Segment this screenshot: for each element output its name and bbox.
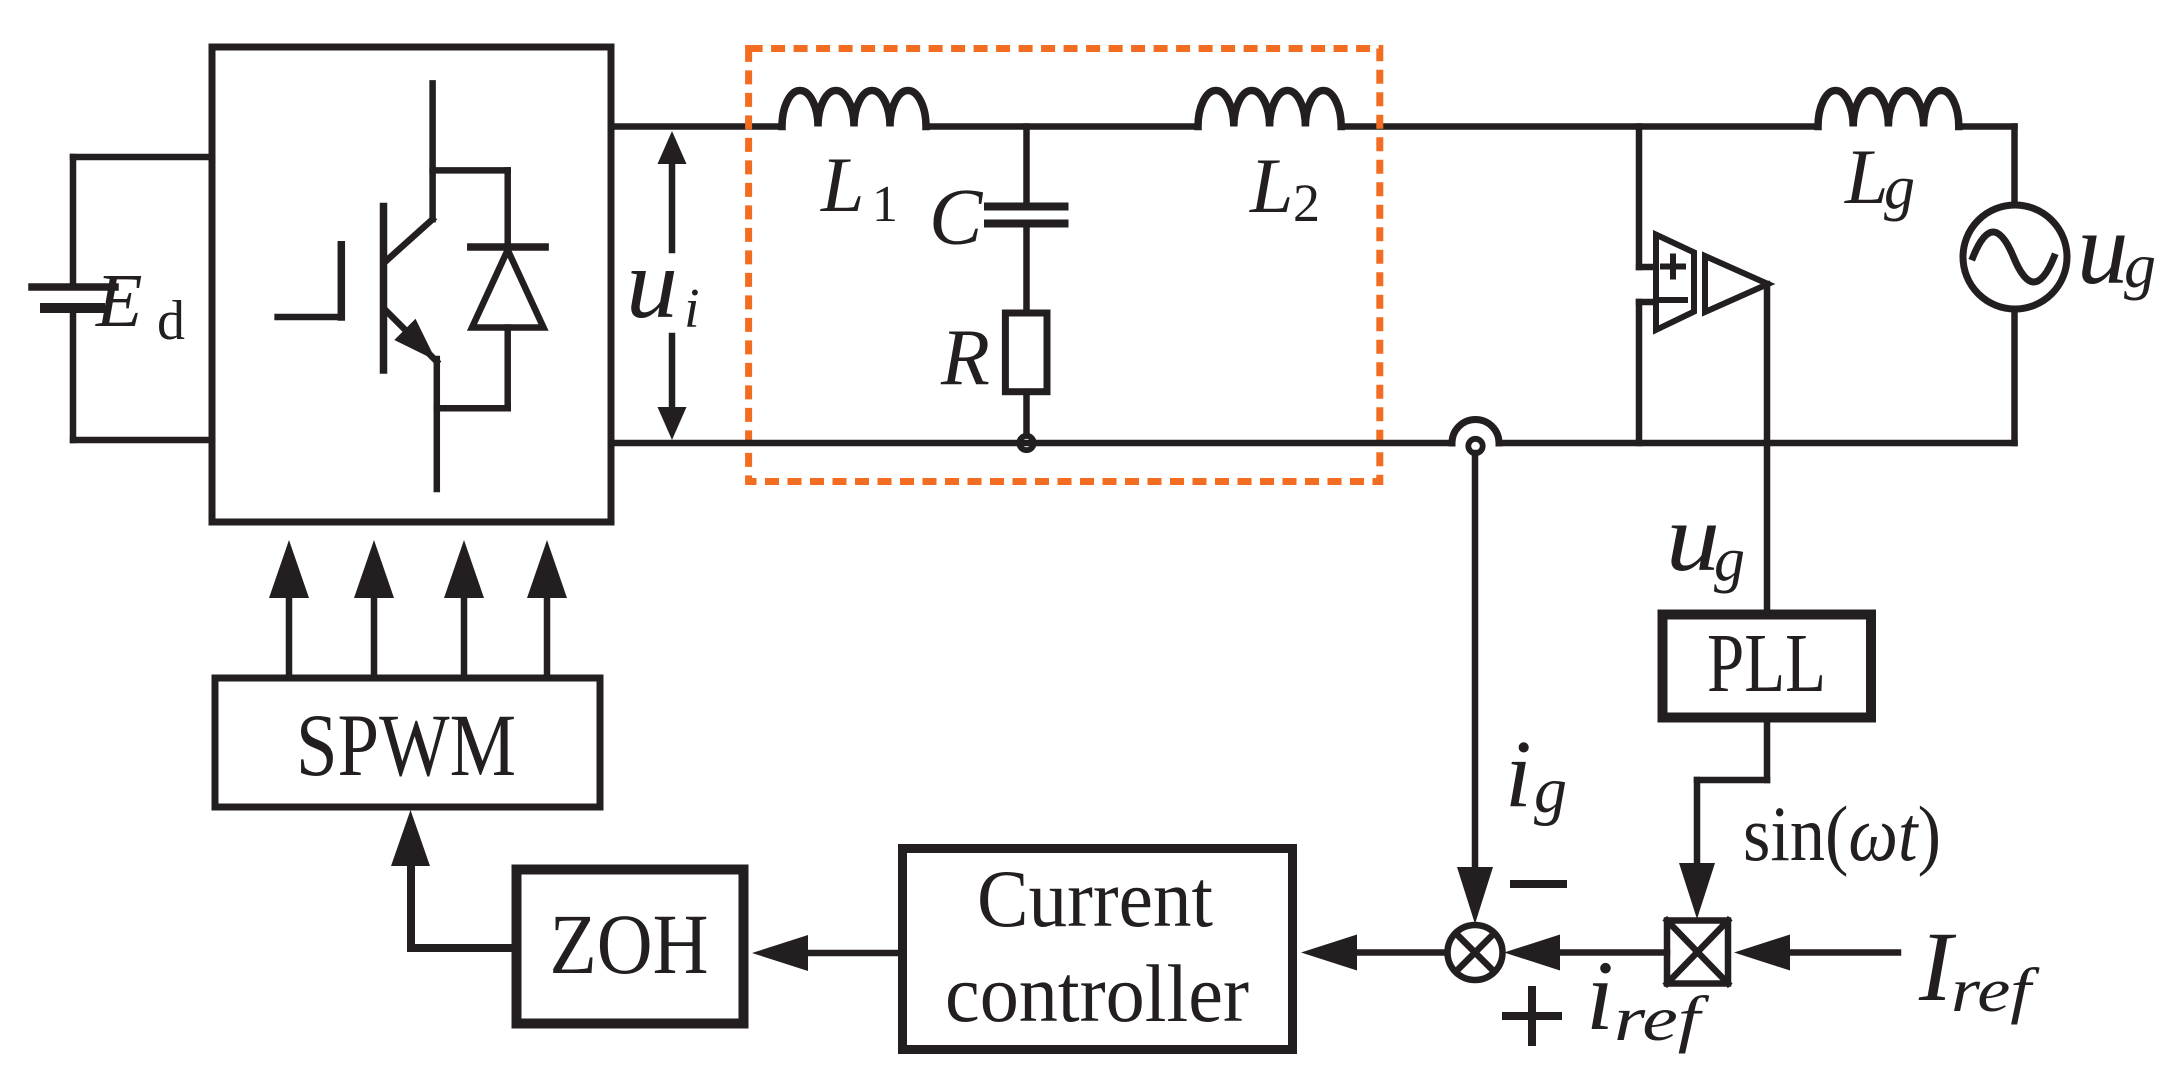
- wire Lg to corner: [1959, 123, 2015, 130]
- wire sensor minus stub: [1639, 299, 1658, 306]
- arrow SPWM gate 4 shaft: [544, 596, 551, 678]
- arrow SPWM gate 3 head: [444, 540, 484, 598]
- arrow ui up head: [658, 131, 687, 164]
- label Iref: [1918, 911, 2040, 1025]
- block Current controller: [903, 849, 1293, 1050]
- capacitor C lead top: [1023, 127, 1030, 204]
- AC source sine wave: [1973, 232, 2054, 282]
- arrow PLL to multiplier head: [1679, 863, 1715, 919]
- top rail from inverter: [611, 123, 782, 130]
- wire PLL out horizontal: [1697, 777, 1767, 784]
- diode D1 cathode bar: [471, 243, 545, 251]
- arrow ig head: [1457, 867, 1493, 924]
- svg-text:ref: ref: [1951, 957, 2040, 1025]
- svg-text:E: E: [95, 259, 142, 343]
- transistor Q1 gate bar: [338, 245, 346, 317]
- diode D1 cathode lead: [504, 170, 511, 247]
- arrow summing to controller head: [1301, 935, 1357, 971]
- wire PLL out vertical 2: [1694, 780, 1701, 864]
- svg-text:L: L: [1249, 142, 1293, 229]
- voltage sensor trapezoid: [1656, 235, 1694, 330]
- svg-text:C: C: [929, 174, 984, 262]
- wire battery left lower: [70, 313, 77, 440]
- arrow ZOH to SPWM head: [391, 810, 430, 866]
- wire emitter-diode stub: [437, 405, 508, 412]
- inductor L1: [782, 91, 926, 127]
- transistor Q1 gate lead: [278, 314, 342, 321]
- arrow SPWM gate 1 head: [269, 540, 309, 598]
- svg-text:sin(ωt): sin(ωt): [1743, 790, 1941, 877]
- svg-text:g: g: [2124, 230, 2156, 301]
- transistor Q1 collector diagonal: [386, 219, 433, 261]
- label C: [929, 174, 984, 262]
- resistor R: [1005, 313, 1047, 392]
- label Ed: [95, 259, 185, 352]
- label plus at summing: [1506, 990, 1558, 1042]
- wire top rail L1 to L2: [926, 123, 1198, 130]
- inverter bridge box: [212, 47, 611, 522]
- arrow SPWM gate 2 head: [354, 540, 394, 598]
- voltage sensor minus sign: [1661, 297, 1685, 303]
- capacitor C plate bottom: [988, 220, 1065, 228]
- arrow multiplier to summing shaft: [1561, 949, 1667, 956]
- wire C to R: [1023, 228, 1030, 314]
- transistor Q1 body bar: [380, 207, 388, 371]
- svg-text:PLL: PLL: [1707, 617, 1826, 710]
- label sin(wt): [1743, 790, 1941, 877]
- wire PLL out vertical 1: [1764, 722, 1771, 780]
- node PCC junction vertical upper: [1636, 127, 1643, 268]
- wire Iref in: [1791, 949, 1898, 956]
- wire collector-diode stub: [433, 167, 508, 174]
- wire battery left upper: [70, 157, 77, 283]
- LCL filter dashed box: [749, 49, 1380, 482]
- bottom rail left segment: [611, 440, 1452, 447]
- svg-text:Current: Current: [977, 853, 1213, 944]
- diode D1 anode lead: [504, 328, 511, 409]
- wire R to bottom rail: [1023, 392, 1030, 443]
- svg-text:ref: ref: [1614, 983, 1710, 1054]
- transistor Q1 emitter diagonal: [386, 311, 437, 362]
- battery Ed plate short: [45, 303, 100, 313]
- bottom rail right segment: [1499, 440, 2015, 447]
- arrow controller to ZOH head: [752, 935, 808, 971]
- block ZOH: [517, 870, 744, 1024]
- wire corner down to source: [2011, 127, 2018, 207]
- label Lg: [1844, 133, 1915, 222]
- wire ZOH to SPWM horizontal: [411, 944, 517, 952]
- arrow Iref to multiplier head: [1734, 935, 1790, 971]
- arrow ui down head: [658, 407, 687, 440]
- arrow summing to controller shaft: [1358, 949, 1447, 956]
- svg-text:i: i: [1586, 940, 1614, 1051]
- wire battery bottom: [73, 437, 214, 444]
- label ug right: [2077, 192, 2156, 306]
- arrow SPWM gate 1 shaft: [286, 596, 293, 678]
- label ig: [1505, 720, 1567, 827]
- arrow ui upper shaft: [669, 162, 676, 250]
- arrow SPWM gate 3 shaft: [461, 596, 468, 678]
- svg-text:g: g: [1714, 526, 1745, 594]
- AC source ug circle: [1963, 205, 2067, 309]
- arrow controller to ZOH shaft: [807, 950, 903, 957]
- block SPWM: [215, 678, 600, 807]
- transistor Q1 emitter arrowhead: [394, 319, 436, 361]
- wire source down: [2011, 309, 2018, 443]
- svg-text:controller: controller: [945, 948, 1249, 1039]
- transistor Q1 emitter lead: [434, 359, 441, 489]
- svg-text:ZOH: ZOH: [550, 896, 709, 992]
- svg-text:R: R: [940, 314, 990, 402]
- wire sensor plus stub: [1639, 264, 1658, 271]
- arrow multiplier to summing head: [1504, 935, 1560, 971]
- node PCC junction vertical lower: [1636, 302, 1643, 443]
- svg-text:u: u: [1666, 484, 1720, 591]
- label ug above PLL: [1666, 484, 1745, 594]
- svg-text:L: L: [1844, 133, 1888, 220]
- svg-text:2: 2: [1293, 173, 1320, 233]
- svg-text:L: L: [820, 141, 864, 228]
- wire sensor output to PLL: [1764, 284, 1771, 609]
- voltage sensor plus sign: [1663, 257, 1683, 277]
- inductor L2: [1198, 90, 1341, 126]
- label iref: [1586, 940, 1710, 1054]
- label minus at summing: [1514, 880, 1563, 888]
- block PLL: [1663, 615, 1872, 718]
- arrow ui lower shaft: [669, 336, 676, 409]
- diode D1 triangle: [472, 250, 544, 328]
- svg-text:i: i: [684, 278, 700, 340]
- wire ZOH to SPWM vertical: [407, 864, 415, 948]
- summing junction circle-X: [1448, 925, 1503, 980]
- svg-text:SPWM: SPWM: [296, 697, 516, 795]
- current sensor hump: [1452, 419, 1499, 443]
- svg-text:g: g: [1884, 154, 1915, 222]
- label R: [940, 314, 990, 402]
- voltage sensor amp triangle: [1705, 256, 1768, 312]
- wire top rail L2 to Lg: [1341, 123, 1818, 130]
- label ui: [626, 228, 700, 340]
- inductor Lg: [1818, 91, 1959, 127]
- node damping-branch junction: [1019, 436, 1033, 450]
- svg-text:1: 1: [872, 176, 898, 233]
- svg-text:i: i: [1505, 720, 1532, 827]
- label L2: [1249, 142, 1320, 233]
- multiplier box-X: [1667, 921, 1728, 984]
- capacitor C plate top: [988, 203, 1065, 211]
- current sensor node: [1468, 439, 1482, 453]
- svg-text:u: u: [626, 228, 678, 339]
- arrow SPWM gate 4 head: [527, 540, 567, 598]
- svg-text:u: u: [2077, 192, 2129, 306]
- label L1: [820, 141, 898, 233]
- arrow SPWM gate 2 shaft: [371, 596, 378, 678]
- svg-text:d: d: [157, 290, 185, 352]
- svg-text:g: g: [1534, 754, 1567, 827]
- wire ig down: [1472, 453, 1479, 869]
- transistor Q1 collector lead: [429, 83, 436, 219]
- battery Ed plate long: [32, 283, 115, 291]
- wire battery top: [73, 154, 214, 161]
